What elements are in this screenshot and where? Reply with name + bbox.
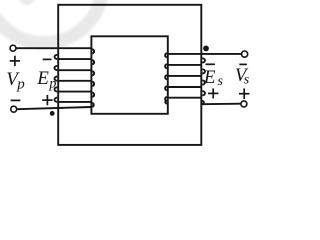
svg-text:E: E (203, 67, 216, 88)
svg-text:p: p (48, 76, 56, 91)
svg-text:E: E (36, 68, 49, 89)
svg-text:p: p (16, 77, 25, 93)
svg-text:s: s (244, 72, 250, 87)
svg-text:s: s (218, 74, 224, 89)
